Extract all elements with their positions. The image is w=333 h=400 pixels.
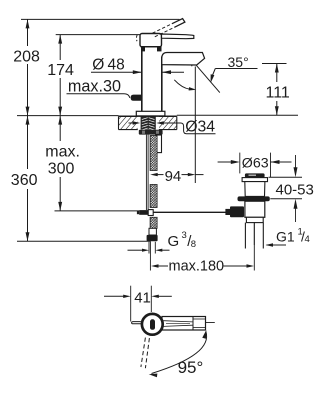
svg-text:3: 3 [182,230,187,241]
svg-text:8: 8 [191,239,196,250]
svg-text:174: 174 [47,62,74,79]
svg-text:360: 360 [11,172,38,189]
svg-text:35°: 35° [228,54,249,70]
svg-text:Ø 48: Ø 48 [92,57,124,74]
svg-text:Ø63: Ø63 [242,155,269,171]
svg-text:max.: max. [45,144,80,161]
svg-text:41: 41 [134,289,151,306]
svg-text:max.30: max.30 [68,77,121,95]
svg-text:G: G [168,233,180,250]
svg-text:300: 300 [48,161,75,178]
svg-text:Ø34: Ø34 [185,118,215,135]
svg-text:40-53: 40-53 [276,182,314,199]
svg-text:111: 111 [266,85,290,102]
svg-text:max.180: max.180 [169,259,225,275]
svg-text:95°: 95° [178,358,204,377]
svg-text:G1: G1 [276,228,295,244]
svg-text:4: 4 [305,234,310,245]
svg-text:94: 94 [165,168,182,185]
svg-text:208: 208 [13,49,40,66]
